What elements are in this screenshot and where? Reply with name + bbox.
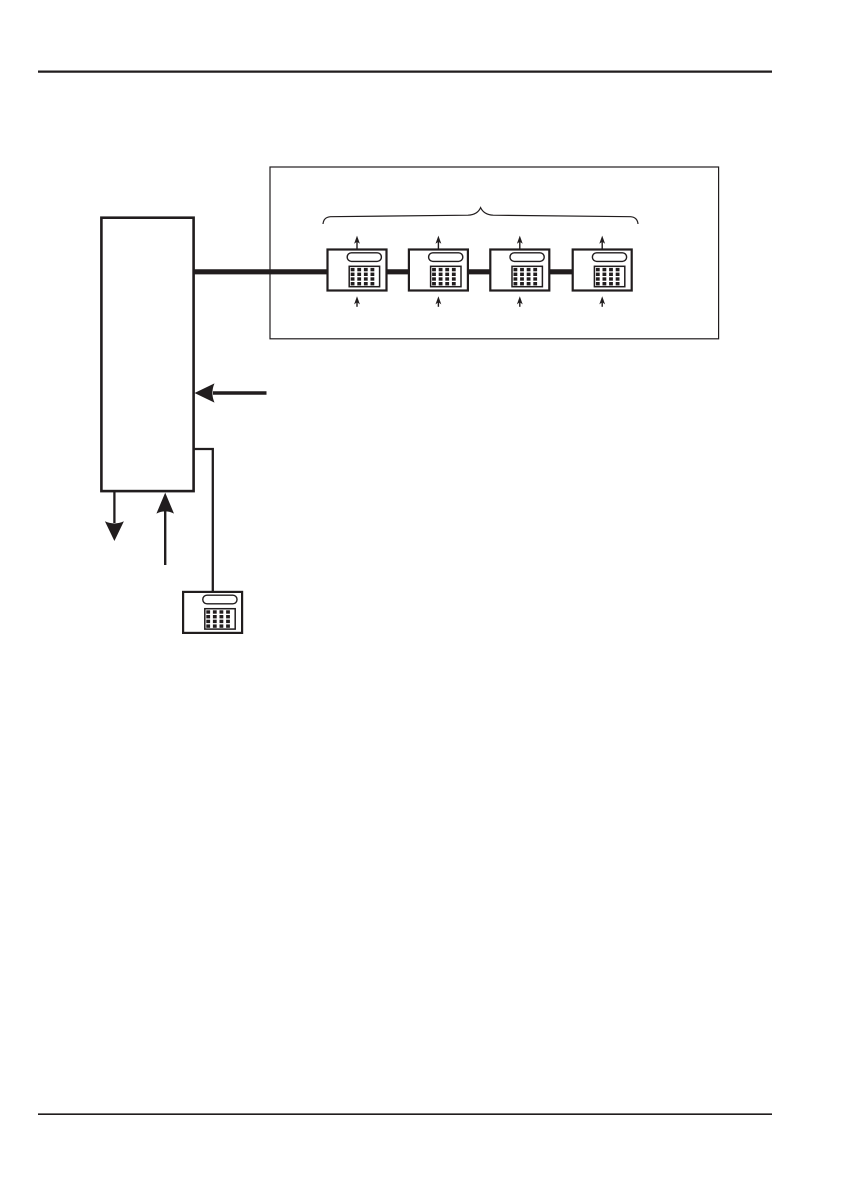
telephone T1	[328, 250, 387, 291]
arrow above T2	[436, 236, 442, 250]
extensions group frame	[270, 167, 719, 339]
up arrow into cabinet bottom	[156, 493, 174, 565]
arrow above T1	[354, 236, 360, 250]
arrow above T4	[599, 236, 605, 250]
extension bus wire	[194, 269, 601, 274]
incoming line arrow into cabinet	[195, 383, 267, 402]
header rule	[38, 70, 772, 72]
operator telephone T5	[183, 592, 242, 633]
arrow below T3	[517, 296, 523, 307]
arrow below T2	[436, 296, 442, 307]
PBX cabinet box	[101, 218, 193, 491]
telephone T2	[409, 250, 468, 291]
telephone T4	[573, 250, 632, 291]
brace over extension telephones	[323, 208, 638, 224]
arrow above T3	[517, 236, 523, 250]
arrow below T4	[599, 296, 605, 307]
down arrow out of cabinet bottom	[105, 490, 124, 541]
telephone T3	[490, 250, 549, 291]
arrow below T1	[354, 296, 360, 307]
footer rule	[38, 1113, 772, 1115]
wire from cabinet to operator telephone	[194, 449, 213, 591]
